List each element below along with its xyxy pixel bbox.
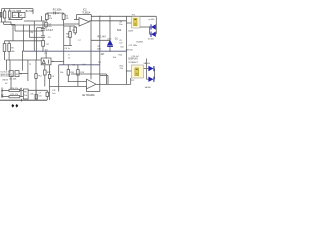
resistor R14 <box>9 89 20 91</box>
arrow mark 2 <box>15 104 18 108</box>
capacitor C5 <box>46 92 49 96</box>
wire bottom half left verticals <box>6 60 8 71</box>
svg-text:CONNECT: CONNECT <box>128 62 139 64</box>
labels <box>0 9 155 97</box>
svg-text:1N4001: 1N4001 <box>136 41 144 43</box>
svg-text:47k: 47k <box>49 18 52 20</box>
svg-text:R21 47k: R21 47k <box>10 94 17 96</box>
svg-text:10k: 10k <box>66 36 69 38</box>
component small <box>45 22 48 27</box>
svg-text:10 400: 10 400 <box>148 38 155 40</box>
svg-text:10k: 10k <box>24 95 27 97</box>
input jack <box>0 13 2 18</box>
wire box1 pin <box>127 22 132 24</box>
wire K2 to R10 column <box>19 73 28 75</box>
svg-text:C6 1u: C6 1u <box>65 48 70 50</box>
wire left resistor stubs <box>4 41 6 44</box>
resistor R13 <box>77 70 80 76</box>
svg-text:10k: 10k <box>113 57 116 59</box>
resistor R10 <box>35 74 37 79</box>
capacitor C4 <box>35 95 38 100</box>
wire rail y51 <box>23 50 126 52</box>
resistor R8 <box>3 44 6 52</box>
junction dots <box>22 16 150 88</box>
resistor R2 <box>9 11 11 18</box>
wire cluster down <box>10 77 12 90</box>
svg-text:CMOS: CMOS <box>2 79 9 81</box>
svg-text:BC 548: BC 548 <box>10 79 18 81</box>
pot box <box>23 89 28 99</box>
LED D2 (top right, points left) <box>151 32 156 37</box>
ground bar bottom left <box>0 99 47 101</box>
LED D1 (top right, points left) <box>151 24 156 29</box>
svg-text:47k: 47k <box>65 18 68 20</box>
svg-text:C13 4u7: C13 4u7 <box>131 56 139 58</box>
resistor R17 column under buzzer <box>44 65 46 70</box>
svg-text:10n: 10n <box>119 24 122 26</box>
resistor R6 <box>69 32 72 38</box>
transistor pair box Q1 <box>12 12 18 17</box>
resistor R11 <box>48 74 50 78</box>
wire rail y58 <box>6 59 42 61</box>
wire top rail left <box>2 8 33 10</box>
LED D5 (bottom right, points right) <box>148 77 154 82</box>
svg-text:C3 4n7: C3 4n7 <box>46 30 54 32</box>
svg-text:CA 3086: CA 3086 <box>12 10 22 13</box>
svg-text:R2 100k: R2 100k <box>53 9 62 11</box>
wire tall vertical <box>23 25 25 51</box>
wire box1 to led <box>140 26 151 28</box>
svg-text:R12: R12 <box>117 30 122 32</box>
svg-text:C12 100n: C12 100n <box>129 45 138 47</box>
wire mid column <box>63 25 65 65</box>
wire box2 right leds <box>144 68 150 70</box>
wire mid sub-circuit top <box>47 12 64 14</box>
wire top right rail <box>91 15 156 17</box>
svg-text:LED: LED <box>108 38 112 40</box>
buzzer BZ1 <box>41 58 51 65</box>
resistor R9 <box>8 44 11 52</box>
feedback loop U1 <box>90 15 92 21</box>
IC box U3 (top right, yellow) <box>132 17 141 29</box>
resistor R12 <box>67 70 70 76</box>
svg-text:Tr: Tr <box>68 54 70 56</box>
resistor R4 <box>62 14 65 20</box>
resistor R7 <box>74 27 77 33</box>
resistor R3 <box>45 14 48 20</box>
svg-text:da TRAMA: da TRAMA <box>82 93 95 97</box>
op-amp U1 <box>79 18 89 26</box>
op-amp U2 <box>87 79 97 89</box>
wire 555 area <box>37 27 43 29</box>
svg-text:R11 4k7: R11 4k7 <box>98 37 107 39</box>
svg-text:R20 47k: R20 47k <box>10 88 17 90</box>
capacitor C2 <box>41 28 45 30</box>
wire left edge <box>1 9 3 22</box>
svg-text:TL081A: TL081A <box>82 11 91 14</box>
svg-text:40SV: 40SV <box>128 31 134 33</box>
wire bottom mid verticals <box>35 60 37 74</box>
svg-text:BC 549: BC 549 <box>26 11 34 13</box>
svg-text:22k: 22k <box>120 68 123 70</box>
relay contact box K2 <box>15 71 19 77</box>
wire u2 upper mesh <box>71 73 107 75</box>
resistor R15 <box>9 96 20 98</box>
wire bottom right of rows <box>28 89 47 91</box>
svg-text:SM 100: SM 100 <box>126 49 134 51</box>
transistor pair box Q2 <box>19 12 25 17</box>
svg-text:1A 400: 1A 400 <box>145 86 152 89</box>
svg-text:100n: 100n <box>97 48 101 50</box>
LED D4 (bottom right, points right) <box>148 66 154 71</box>
wire block bottom mesh <box>1 21 12 23</box>
svg-text:10k: 10k <box>60 72 63 74</box>
wire box2 pin <box>127 70 132 72</box>
LED D3 (middle, points up) <box>107 40 113 47</box>
relay contact box K1 <box>9 71 13 77</box>
resistor R5 <box>42 41 45 47</box>
input terminal circles <box>1 90 3 92</box>
resistor R1 <box>3 11 5 18</box>
wire LED stack vertical <box>109 16 111 40</box>
capacitor C3 <box>41 35 45 37</box>
wire right tall vertical <box>126 16 128 84</box>
capacitor C1 <box>53 12 55 15</box>
arrow mark 1 <box>11 104 14 108</box>
svg-text:10k: 10k <box>30 94 33 96</box>
wire bottom left rows <box>2 89 9 91</box>
IC box U4 (bottom right, yellow) <box>132 65 144 78</box>
wire <box>21 18 23 20</box>
svg-text:1u: 1u <box>52 61 54 63</box>
svg-text:xx 400: xx 400 <box>148 19 155 21</box>
pot wiper arrow <box>20 87 22 89</box>
wire rail y64.7 <box>59 64 100 66</box>
svg-text:47u: 47u <box>48 26 51 28</box>
svg-text:SA 400: SA 400 <box>144 62 151 65</box>
